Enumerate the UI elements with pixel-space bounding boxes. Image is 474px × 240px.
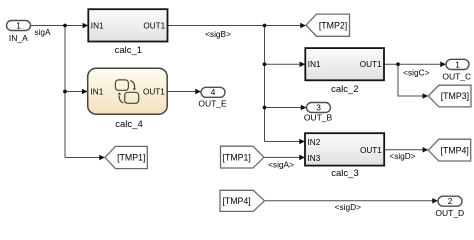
svg-text:OUT_B: OUT_B [304,112,333,122]
svg-text:[TMP1]: [TMP1] [117,153,145,163]
svg-text:calc_1: calc_1 [115,45,142,56]
svg-text:IN_A: IN_A [9,33,28,43]
svg-text:OUT_C: OUT_C [442,71,471,81]
svg-text:<sigC>: <sigC> [403,67,429,77]
svg-text:<sigB>: <sigB> [205,29,231,39]
svg-text:calc_3: calc_3 [331,168,358,179]
svg-text:2: 2 [448,196,453,206]
svg-text:[TMP4]: [TMP4] [441,145,469,155]
svg-text:sigA: sigA [34,27,51,37]
svg-text:[TMP2]: [TMP2] [319,21,347,31]
svg-text:OUT1: OUT1 [360,60,382,69]
svg-text:4: 4 [211,87,216,97]
svg-text:OUT1: OUT1 [143,88,165,97]
svg-text:IN1: IN1 [91,88,104,97]
svg-text:<sigD>: <sigD> [389,151,415,161]
svg-text:<sigA>: <sigA> [268,159,294,169]
svg-text:[TMP4]: [TMP4] [222,196,250,206]
svg-text:[TMP1]: [TMP1] [223,153,251,163]
svg-text:IN1: IN1 [308,60,321,69]
svg-text:[TMP3]: [TMP3] [441,91,469,101]
svg-text:OUT1: OUT1 [143,21,165,30]
svg-text:OUT_E: OUT_E [198,99,227,109]
svg-text:OUT1: OUT1 [360,146,382,155]
svg-text:OUT_D: OUT_D [435,208,464,218]
svg-text:IN1: IN1 [91,21,104,30]
svg-text:<sigD>: <sigD> [335,202,361,212]
svg-text:1: 1 [455,59,460,69]
svg-text:IN3: IN3 [308,154,321,163]
svg-text:3: 3 [316,102,321,112]
svg-text:calc_2: calc_2 [331,84,358,95]
svg-text:IN2: IN2 [308,138,321,147]
svg-text:1: 1 [16,20,21,30]
svg-text:calc_4: calc_4 [115,119,142,130]
